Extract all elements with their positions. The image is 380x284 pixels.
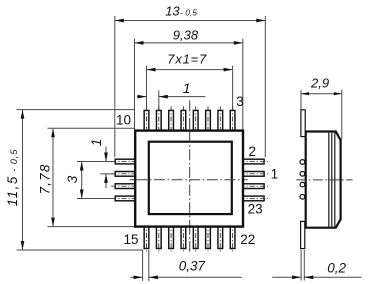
pin 17 (bottom row) xyxy=(169,223,174,253)
pin 11 (left column) xyxy=(111,159,139,164)
svg-text:- 0,5: - 0,5 xyxy=(180,7,197,17)
pin 24 (right column) xyxy=(240,184,269,189)
pin 1 (right column) xyxy=(240,172,269,177)
pin 13 (left column) xyxy=(111,184,139,189)
dimension 1 pin pitch (top) xyxy=(137,80,205,110)
pin 5 (top row) xyxy=(206,106,211,134)
svg-text:2: 2 xyxy=(249,144,257,159)
pin 7 (top row) xyxy=(181,106,186,134)
svg-text:2,9: 2,9 xyxy=(310,76,329,91)
pin 4 (top row) xyxy=(218,106,223,134)
pin 22 (bottom row) xyxy=(230,223,235,253)
dimension 1 pin pitch (left) xyxy=(88,139,115,188)
dimension 7x1=7 pin row span xyxy=(147,52,233,111)
side view lead end circle 2 xyxy=(300,171,305,176)
svg-text:1: 1 xyxy=(271,167,279,182)
svg-text:22: 22 xyxy=(240,232,255,247)
dimension 3 left pin span xyxy=(65,162,115,199)
pin 10 (top row) xyxy=(144,106,149,134)
svg-text:15: 15 xyxy=(124,232,139,247)
svg-text:0,37: 0,37 xyxy=(179,258,206,273)
die pad inner square xyxy=(149,142,232,214)
svg-text:10: 10 xyxy=(116,112,131,127)
pin 21 (bottom row) xyxy=(218,223,223,253)
dimension 7,78 body height xyxy=(37,128,135,226)
side view top lead xyxy=(301,110,305,137)
svg-text:1: 1 xyxy=(183,80,191,96)
centerline over body (horizontal) xyxy=(136,179,241,181)
pin 14 (left column) xyxy=(111,196,139,201)
dimension 9,38 body width xyxy=(135,27,243,130)
pin 19 (bottom row) xyxy=(193,223,198,253)
dimension 11,5 -0,5 overall height xyxy=(5,110,143,250)
side view lead end circle 4 xyxy=(300,194,305,199)
pin 6 (top row) xyxy=(193,106,198,134)
pin 23 (right column) xyxy=(240,196,269,201)
svg-text:0,2: 0,2 xyxy=(327,260,346,275)
svg-text:3: 3 xyxy=(236,94,244,109)
svg-text:7x1=7: 7x1=7 xyxy=(167,52,207,67)
side view lead end circle 1 xyxy=(300,160,305,165)
svg-text:13: 13 xyxy=(165,3,180,18)
svg-text:7,78: 7,78 xyxy=(37,163,52,194)
vertical centerline xyxy=(189,100,191,251)
centerline over body (vertical) xyxy=(189,132,191,226)
pin 20 (bottom row) xyxy=(206,223,211,253)
side view lead end circle 3 xyxy=(300,182,305,187)
side view bottom lead xyxy=(301,221,305,248)
pin 12 (left column) xyxy=(111,172,139,177)
dimension 13 -0,5 overall width xyxy=(115,3,265,157)
horizontal centerline xyxy=(130,179,248,181)
package body outline xyxy=(135,131,243,227)
svg-text:11,5 - 0,5: 11,5 - 0,5 xyxy=(5,149,20,207)
side view centerline xyxy=(296,179,352,181)
dimension 0,2 lead thickness xyxy=(272,250,361,281)
svg-text:3: 3 xyxy=(65,175,80,183)
side view body xyxy=(306,132,341,228)
pin 15 (bottom row) xyxy=(144,223,149,253)
svg-text:23: 23 xyxy=(248,202,263,217)
pin 18 (bottom row) xyxy=(181,223,186,253)
pin 3 (top row) xyxy=(230,106,235,134)
pin 8 (top row) xyxy=(169,106,174,134)
svg-text:1: 1 xyxy=(88,139,104,147)
dimension 0,37 lead width xyxy=(130,250,241,281)
pin 9 (top row) xyxy=(156,106,161,134)
pin 16 (bottom row) xyxy=(156,223,161,253)
pin 2 (right column) xyxy=(240,159,269,164)
svg-text:9,38: 9,38 xyxy=(173,27,199,42)
dimension 2,9 body thickness xyxy=(301,76,342,140)
